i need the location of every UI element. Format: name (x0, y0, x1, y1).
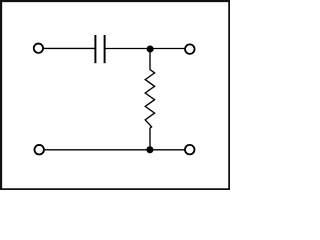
capacitor C1 left plate (94, 35, 96, 63)
terminal top-right (185, 44, 195, 54)
border frame (1, 1, 229, 189)
terminal bottom-right (185, 145, 195, 155)
resistor R1 (145, 49, 154, 150)
wire bottom (45, 149, 185, 151)
wire top-right (105, 48, 185, 50)
terminal top-left (34, 44, 43, 53)
junction node top (147, 45, 154, 52)
wire top-left (44, 47, 95, 49)
junction node bottom (146, 146, 153, 153)
capacitor C1 right plate (104, 35, 106, 63)
terminal bottom-left (34, 145, 44, 155)
